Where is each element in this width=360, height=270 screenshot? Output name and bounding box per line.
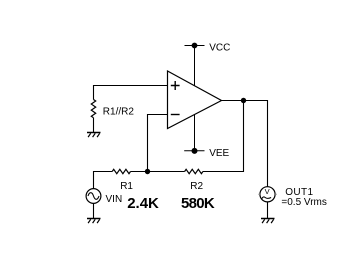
wire VIN to ground	[93, 203, 95, 218]
wire inverting input	[148, 115, 168, 172]
svg-text:V: V	[265, 187, 270, 196]
resistor R1	[112, 169, 130, 173]
svg-text:580K: 580K	[181, 195, 215, 212]
VCC supply symbol	[185, 43, 205, 86]
resistor R2	[185, 169, 203, 173]
wire voltmeter to ground	[267, 202, 269, 219]
svg-text:2.4K: 2.4K	[127, 195, 159, 212]
source VIN	[86, 189, 101, 204]
svg-text:VCC: VCC	[209, 43, 230, 54]
ground below VIN	[87, 219, 101, 224]
wire non-inverting input	[94, 86, 168, 100]
wire VIN to R1	[94, 172, 113, 189]
wire resistor to ground	[93, 118, 95, 133]
op-amp U1	[168, 71, 222, 129]
svg-text:=0.5 Vrms: =0.5 Vrms	[281, 197, 326, 208]
svg-text:VEE: VEE	[209, 148, 229, 159]
wire output	[222, 101, 268, 187]
junction node output	[241, 98, 246, 103]
ground below R1//R2	[87, 133, 101, 138]
resistor R1//R2 (vertical)	[91, 100, 95, 118]
wire R1 to R2	[131, 171, 185, 173]
svg-text:R1: R1	[120, 181, 133, 192]
voltmeter OUT1	[258, 187, 277, 202]
VEE supply symbol	[184, 115, 204, 154]
svg-text:VIN: VIN	[106, 194, 123, 205]
ground below voltmeter	[261, 219, 275, 224]
junction node inverting	[145, 169, 150, 174]
svg-text:R2: R2	[190, 181, 203, 192]
wire R2 to feedback	[203, 101, 244, 172]
svg-text:R1//R2: R1//R2	[103, 107, 135, 118]
